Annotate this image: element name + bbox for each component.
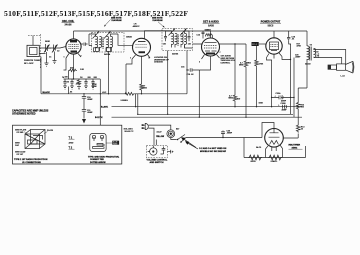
svg-text:24A56: 24A56 [64, 24, 72, 27]
arrow note 2 [158, 22, 165, 28]
speaker frame [337, 64, 346, 70]
resistor R13 vertical [296, 124, 300, 133]
tube V1 converter 12AB6 envelope [66, 39, 81, 54]
rectifier tube V5 envelope [265, 129, 284, 148]
antenna shield dashed lines [28, 34, 40, 69]
svg-text:MEG: MEG [143, 88, 148, 90]
volume control dashed box [146, 145, 167, 158]
wire lamp to switch [171, 138, 177, 140]
leader to blue wire [106, 142, 112, 144]
svg-text:#47: #47 [176, 128, 179, 131]
svg-text:2: 2 [199, 62, 200, 64]
svg-text:C23A: C23A [276, 92, 282, 95]
wire R3 to detector [135, 93, 187, 95]
loop antenna L1 inner box [30, 47, 37, 54]
capacitor C inside volume box [161, 147, 166, 155]
T2 wires top [166, 31, 190, 34]
svg-text:1/2W: 1/2W [92, 86, 97, 88]
wire C18 drop [289, 31, 294, 117]
svg-text:TYPE 1 1ST RADIO PRODUCTION: TYPE 1 1ST RADIO PRODUCTION [14, 158, 48, 161]
node dot AVC junction [125, 93, 126, 94]
tube V2 cathode [139, 51, 146, 53]
svg-text:1: 1 [130, 58, 131, 60]
filter cap C23B [283, 105, 287, 109]
wire T2 secondary to V3 grid [185, 44, 202, 48]
svg-text:50-60 CY.: 50-60 CY. [125, 131, 135, 133]
switch S1 contacts [177, 139, 179, 141]
capacitor C10 [82, 97, 86, 110]
base diagram outer box [13, 125, 122, 164]
T2 slug arrow 2 [180, 29, 187, 36]
filament resistor RB [269, 155, 282, 160]
svg-text:7: 7 [220, 52, 221, 54]
node dot C25 [222, 137, 223, 138]
volume pot R4 [150, 148, 157, 155]
svg-text:C4: C4 [80, 76, 82, 79]
svg-text:220: 220 [88, 77, 91, 79]
T1 core [102, 38, 103, 49]
capacitor C12 grid [81, 43, 88, 46]
svg-text:OSC. COIL: OSC. COIL [62, 20, 75, 23]
T2 primary coil [172, 33, 174, 47]
trimmer capacitor C1A [46, 44, 52, 52]
node dots on bus [135, 106, 136, 107]
tube V2 pin leads [132, 55, 150, 61]
T2 primary coil b [175, 33, 177, 47]
ground C6 [70, 86, 74, 89]
resistor R5 on rail [206, 34, 213, 38]
svg-text:22K: 22K [94, 77, 98, 79]
svg-text:20: 20 [67, 82, 69, 84]
V5 filament triangles [270, 141, 279, 145]
tube V3 det and audio envelope [202, 38, 220, 56]
tube V1 pin leads [66, 54, 81, 59]
svg-text:C2: C2 [57, 51, 59, 53]
switch S1 lever [178, 135, 186, 140]
T2 secondary coil [181, 33, 183, 47]
svg-text:260K: 260K [45, 41, 50, 43]
svg-text:B+90V.: B+90V. [101, 106, 109, 108]
capacitor C18 right of V4 [287, 36, 290, 41]
winding shape [93, 144, 106, 147]
T3 secondary coil [314, 48, 316, 57]
svg-text:CHASSIS: CHASSIS [154, 61, 163, 64]
svg-text:C23B: C23B [281, 103, 287, 105]
svg-text:T3: T3 [310, 44, 313, 46]
svg-text:40MF: 40MF [282, 109, 288, 112]
T2 slug arrow 1 [169, 29, 176, 36]
jack stub [167, 150, 173, 154]
pilot lamp PL1 [167, 130, 175, 138]
svg-text:10MEG: 10MEG [205, 30, 212, 32]
svg-text:24-47: 24-47 [157, 130, 162, 133]
tube V3 diode plates [205, 50, 217, 52]
wire V1 cathode down [73, 58, 75, 68]
T2 core [177, 35, 178, 46]
svg-text:150: 150 [301, 107, 304, 109]
leader lines cube [24, 132, 48, 136]
IF base cube front face [25, 134, 40, 149]
svg-text:12BA6: 12BA6 [126, 36, 132, 39]
node dot V1 junction [73, 78, 74, 79]
svg-text:RF LOOP: RF LOOP [24, 63, 34, 65]
svg-text:AND SWITCH: AND SWITCH [150, 161, 164, 164]
tube V4 power output envelope [266, 38, 282, 54]
node dot plate load [234, 43, 235, 44]
resistor R2 vertical [77, 79, 80, 86]
IF transformer T2 dashed box [162, 29, 193, 51]
wire T3 to speaker bottom [314, 58, 342, 64]
trimmer arrow C1B [52, 45, 58, 53]
wire rail drop to output transformer T3 [306, 31, 308, 46]
wire V3 cathode down [199, 60, 210, 70]
pin circle right [100, 135, 103, 138]
svg-text:CONTROL: CONTROL [221, 63, 231, 65]
T3 core lines [310, 47, 311, 61]
ground arrow C11 [82, 119, 86, 124]
top rail wire [74, 30, 308, 32]
T1 primary coil b [100, 36, 102, 51]
filament resistor RA [249, 155, 263, 160]
B minus bus [112, 116, 303, 118]
type 2 base rounded square [90, 134, 106, 152]
svg-text:8A58: 8A58 [208, 24, 214, 27]
speaker cone [346, 61, 354, 73]
wire V5 cathode to B+ [283, 134, 298, 139]
svg-text:R10: R10 [237, 99, 240, 101]
svg-text:22: 22 [301, 129, 303, 131]
pin circle left [92, 135, 95, 138]
tube V4 pin leads [267, 53, 291, 60]
T2 side capacitor right [188, 34, 191, 41]
svg-text:DIAGRAM: DIAGRAM [153, 19, 163, 22]
capacitor C5 [63, 79, 66, 86]
svg-text:2.2MEG: 2.2MEG [121, 100, 129, 102]
resistor R1 22K [69, 69, 77, 72]
svg-text:C19: C19 [315, 52, 318, 54]
V5 plate [269, 129, 280, 138]
svg-text:R11: R11 [248, 63, 251, 65]
annotation arrow 2 [187, 142, 199, 149]
capacitor C7 [84, 79, 87, 86]
svg-text:24C63: 24C63 [305, 63, 311, 66]
ground C5 [63, 86, 67, 89]
resistor R7 vertical [244, 60, 248, 68]
V5 pin leads [266, 145, 283, 151]
svg-text:.05MF: .05MF [227, 133, 233, 135]
svg-text:BLACK: BLACK [43, 91, 51, 94]
svg-text:I.F. CONNECTIONS: I.F. CONNECTIONS [22, 162, 41, 164]
svg-text:OTHERWISE NOTED: OTHERWISE NOTED [12, 113, 36, 116]
svg-text:50C5: 50C5 [268, 25, 274, 27]
svg-text:150K: 150K [259, 103, 264, 105]
ground antenna section [45, 52, 49, 66]
loop antenna L1 outer box [27, 45, 39, 56]
wires volume to chassis [155, 140, 157, 146]
wire loop to shield [32, 36, 34, 46]
wire R8 down to B+ [256, 67, 258, 107]
wire T2 bottom drops [168, 51, 187, 115]
IF transformer T1 dashed box [92, 33, 125, 53]
svg-text:24D64: 24D64 [104, 53, 111, 56]
T1 primary coil [96, 36, 98, 51]
wire loop to trimmer C1 [39, 48, 55, 54]
capacitor C25 [221, 131, 225, 138]
node dot black line [83, 93, 84, 94]
tube V3 grids [204, 46, 217, 49]
AC plug body [145, 123, 148, 129]
svg-text:100: 100 [65, 77, 68, 79]
ground C8 [91, 86, 95, 89]
svg-text:C14: C14 [197, 34, 200, 37]
wire V2 plate to T2 [145, 31, 172, 39]
svg-text:OF 2ND: OF 2ND [17, 132, 25, 134]
ground trimmer C1B [53, 52, 57, 64]
wire R12 to R13 [297, 110, 300, 124]
svg-text:455KC: 455KC [133, 25, 140, 28]
cube winding marks [25, 134, 45, 144]
svg-text:.05MF: .05MF [87, 99, 93, 101]
B plus 90V bus [112, 106, 303, 108]
svg-text:AND: AND [69, 141, 74, 144]
capacitor C16 under T2 [187, 68, 199, 72]
svg-text:MEG: MEG [229, 98, 234, 100]
wire V3 plate to coupling [220, 43, 247, 45]
resistor R9 4.7MEG vertical mid [233, 94, 237, 103]
speaker magnet [328, 65, 337, 69]
AVC bus line [138, 113, 293, 115]
svg-text:-35C5-: -35C5- [250, 161, 256, 163]
resistor R3 2.2MEG [124, 92, 135, 95]
svg-text:35W4: 35W4 [292, 146, 298, 149]
svg-text:PLATE: PLATE [47, 129, 54, 132]
svg-text:T 1: T 1 [69, 136, 73, 139]
wire junction to caps [69, 87, 85, 97]
svg-text:RECTIFIER: RECTIFIER [289, 144, 301, 146]
tube V1 cathode blob [71, 51, 78, 53]
wire osc right leg [99, 79, 101, 125]
wire trimmer to V1 grid [55, 47, 66, 49]
AC plug prongs [142, 125, 145, 128]
resistor R8 vertical [255, 59, 259, 67]
svg-text:C1: C1 [49, 57, 51, 59]
AVC bus wire BLACK [41, 93, 124, 95]
wire V5 plate loop [262, 123, 274, 138]
wire V2 cathode legs [126, 59, 142, 64]
svg-text:MODELS 56C 56X 56E 56F: MODELS 56C 56X 56E 56F [200, 151, 227, 153]
svg-text:OF 1ST: OF 1ST [17, 154, 24, 156]
wire AVC vertical from antenna [40, 57, 42, 94]
wire V3 top cluster [202, 31, 205, 39]
svg-text:TYPE 2 2ND RADIO PRODUCTION,: TYPE 2 2ND RADIO PRODUCTION, [88, 156, 120, 159]
couplate PC-1 dark label [252, 42, 259, 46]
svg-text:470K: 470K [259, 63, 264, 66]
T1 secondary coil [107, 36, 109, 51]
svg-text:125: 125 [163, 44, 166, 46]
resistor R6 volume feed vertical [140, 64, 144, 94]
resistor R12 vertical [296, 102, 300, 110]
wire tube V4 top to rail [273, 31, 275, 39]
tube V2 grids [136, 45, 148, 48]
output transformer T3 primary coil [307, 46, 309, 60]
capacitor C6 [70, 79, 73, 86]
vertical drops volume feed [136, 94, 138, 115]
svg-text:-12AV6-: -12AV6- [270, 160, 278, 163]
svg-text:.05MF: .05MF [295, 57, 301, 59]
svg-text:C-2 AND C-4 NOT USED ON: C-2 AND C-4 NOT USED ON [199, 147, 227, 150]
svg-text:5: 5 [149, 58, 150, 60]
svg-text:AVC: AVC [102, 91, 107, 94]
annotation arrow 1 [183, 138, 197, 147]
tube V4 cathode [271, 50, 277, 52]
svg-text:125: 125 [188, 44, 191, 46]
T1 slug arrow 2 [104, 32, 111, 39]
T1 slug arrow 1 [93, 32, 100, 39]
wire down to filament line [243, 138, 245, 158]
wire T1 secondary bottom down [108, 51, 110, 93]
svg-text:.05MF: .05MF [87, 112, 93, 114]
svg-text:L-14: L-14 [341, 75, 346, 78]
tube V1 grids [69, 45, 79, 49]
tube V2 IF amp envelope [133, 38, 151, 56]
svg-text:24D65: 24D65 [172, 52, 179, 55]
svg-text:24-C5: 24-C5 [256, 146, 261, 149]
ground R2 [77, 87, 81, 90]
svg-text:C15: C15 [181, 67, 184, 69]
node dot bus A [100, 93, 101, 94]
tube V4 grid dashes [271, 45, 278, 47]
svg-text:470K: 470K [297, 45, 302, 48]
capacitor C8 [91, 79, 94, 86]
filter cap C23A [272, 95, 294, 99]
tube V1 plate blob [70, 40, 77, 42]
svg-text:MEG: MEG [239, 65, 244, 67]
svg-text:1: 1 [64, 57, 65, 59]
svg-text:VOLUME CONTROL: VOLUME CONTROL [147, 159, 168, 161]
svg-text:.01: .01 [292, 39, 295, 41]
trimmer arrow C1A [44, 45, 50, 53]
IF base cube back face [31, 130, 46, 145]
svg-text:C16 .02: C16 .02 [187, 74, 194, 76]
wire couplate to V4 grid [259, 43, 266, 45]
wire jumper top V2 [118, 34, 133, 45]
pin leads [94, 139, 102, 141]
svg-text:DET & AUDIO: DET & AUDIO [203, 20, 219, 23]
osc section bus wire [64, 68, 101, 79]
AC line wires [148, 125, 171, 145]
wire R9 legs [234, 44, 236, 107]
svg-text:1.5K: 1.5K [80, 69, 85, 71]
filament string line [244, 146, 306, 158]
wire tube V3 top to rail [210, 31, 212, 39]
trimmer capacitor C1B [54, 45, 56, 52]
wire T3 to speaker top [314, 49, 346, 64]
tube V3 cathode blob [206, 53, 215, 55]
svg-text:DIAGRAM: DIAGRAM [112, 19, 122, 22]
node dots filter [271, 97, 272, 98]
ground C7 [84, 86, 88, 89]
tube V4 beam plates rect [270, 42, 279, 50]
T1 base caps [94, 48, 100, 52]
arrow note 1 [104, 20, 111, 27]
wire V1 left pin down [64, 58, 67, 70]
tube V3 pin leads [202, 55, 220, 61]
T2 side capacitor left [164, 34, 167, 41]
wire V2 pin drop to AVC line [125, 64, 127, 94]
wire R12 top [298, 60, 307, 102]
capacitor C19 across speaker line [317, 53, 319, 58]
svg-text:POWER OUTPUT: POWER OUTPUT [261, 20, 281, 23]
wire C16 to bus [198, 70, 200, 117]
tube V2 plate [138, 41, 146, 43]
wire R7 down to B- [245, 68, 247, 117]
svg-text:.05: .05 [70, 91, 73, 93]
wire filter caps top [267, 58, 272, 107]
wire V5 filament pins to string [266, 149, 283, 158]
svg-text:DOTTED ARROW: DOTTED ARROW [90, 161, 106, 164]
cube connecting edges [25, 130, 45, 149]
svg-text:YELLOW: YELLOW [156, 136, 164, 138]
svg-text:T 2: T 2 [69, 146, 73, 149]
dark label blue wire [112, 141, 119, 145]
capacitor C11 [82, 110, 86, 119]
svg-text:7: 7 [81, 56, 82, 58]
wire switch to C25 line [181, 138, 262, 143]
T2 secondary coil b [185, 33, 187, 47]
tube V3 plate [205, 42, 217, 44]
wire couplate legs down [246, 44, 257, 60]
svg-text:+: + [275, 95, 277, 97]
svg-text:B-117V.: B-117V. [95, 117, 103, 119]
T1 wire to V2 grid [89, 34, 118, 46]
wire tube V1 plate to rail [73, 31, 75, 39]
T1 secondary coil b [111, 36, 113, 51]
